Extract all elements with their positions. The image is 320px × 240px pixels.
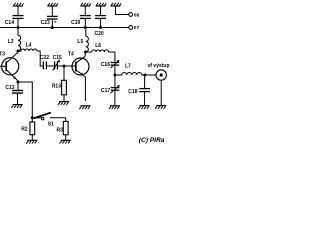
wire ground to O8 [116,7,129,15]
wire emitter T3 right and down to S1 [18,82,32,118]
capacitor C20 [95,7,106,28]
node junction C19/rail [84,26,87,29]
svg-text:T3: T3 [0,52,5,58]
svg-text:C14: C14 [5,20,14,26]
capacitor C19 [80,7,91,28]
ground below C17 [109,106,120,109]
wire top supply rail [0,27,129,29]
svg-text:C22: C22 [40,55,49,61]
svg-text:L7: L7 [125,64,131,70]
node junction C14/rail [17,26,20,29]
wire node to T4 base [64,65,76,67]
wire L6 down to C16 [114,52,116,62]
svg-text:C18: C18 [128,89,137,95]
node switch S1 pivot [31,116,34,119]
node junction C23/rail [51,26,54,29]
coax output connector [156,70,166,105]
svg-text:+: + [54,20,57,25]
ground above C19 [80,3,91,6]
svg-text:R3: R3 [56,128,63,134]
ground below T4 emitter [79,106,90,109]
ground below R2 [26,140,37,143]
svg-text:L5: L5 [77,39,83,45]
svg-text:C15: C15 [53,55,62,61]
node collector T4 / L5 / L6 [84,51,87,54]
node junction C20/rail [99,26,102,29]
terminal O8 [129,13,133,17]
svg-text:C23: C23 [41,20,50,26]
transistor T4 [72,52,89,101]
capacitor C23 electrolytic [47,7,58,28]
node collector T3 / L3 / L4 [17,50,20,53]
svg-text:C13: C13 [5,85,14,91]
inductor L3 [18,28,21,52]
capacitor C18 [139,75,150,105]
node C16 / L7 / C17 [113,74,116,77]
svg-text:T4: T4 [68,52,74,58]
svg-text:C20: C20 [95,31,104,37]
capacitor C14 [13,7,24,28]
resistor R13 [62,66,67,101]
ground below C18 [139,106,150,109]
trimmer capacitor C16 [111,60,120,75]
trimmer capacitor C15 [53,60,64,71]
wire node to connector [145,74,156,76]
svg-text:07: 07 [134,25,140,31]
ground above C14 [13,3,24,6]
node L7 / C18 / output [143,74,146,77]
capacitor C22 [43,61,54,69]
wire emitter T3 down to C13 [17,82,19,90]
ground below connector [155,106,166,109]
resistor R3 [63,118,68,140]
svg-text:R2: R2 [21,126,28,132]
svg-text:C16: C16 [101,62,110,68]
wire L4 to C22 [37,51,43,66]
svg-text:L3: L3 [8,39,14,45]
terminal O7 [129,26,133,30]
transistor T3 [0,52,19,81]
svg-text:S1: S1 [48,122,54,128]
trimmer capacitor C17 [110,75,120,105]
node base T4 / R13 [63,65,66,68]
switch S1 [32,113,65,120]
ground below R13 [58,102,69,105]
inductor L6 [86,50,115,52]
resistor R2 [30,118,35,140]
node emitter T3 [17,81,20,84]
svg-text:L4: L4 [26,43,32,49]
inductor L5 [85,28,88,53]
ground below R3 [60,140,71,143]
inductor L7 [115,73,145,76]
ground below C13 [11,105,22,108]
inductor L4 [18,49,37,51]
svg-text:(C) PIRa: (C) PIRa [139,137,165,144]
ground for terminal O8 [111,3,122,6]
svg-text:R13: R13 [52,83,61,89]
ground above C20 [96,3,107,6]
capacitor C13 [12,91,23,105]
ground above C23 [47,3,58,6]
svg-text:C17: C17 [101,88,110,94]
svg-text:08: 08 [134,12,140,18]
svg-text:vf výstup: vf výstup [148,63,170,69]
svg-text:C19: C19 [71,20,80,26]
svg-text:L6: L6 [95,43,101,49]
